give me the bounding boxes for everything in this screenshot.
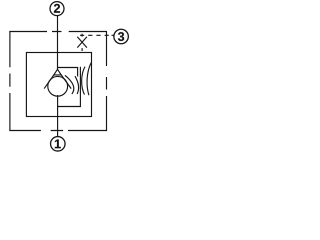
seat diagonal left — [44, 75, 54, 89]
digit 3 — [118, 32, 124, 41]
pilot dashed line to port 3 — [80, 34, 114, 36]
envelope bottom dashed edge — [9, 130, 107, 132]
envelope left dashed edge — [9, 31, 11, 131]
check ball — [48, 76, 68, 96]
spring arc right outer — [87, 63, 91, 96]
seat diagonal right — [61, 75, 71, 89]
spring arc left inner — [65, 75, 74, 94]
pilot vertical dashes at x=82 — [81, 34, 83, 51]
middle box (piston body) — [26, 53, 91, 117]
envelope top dashed edge — [9, 31, 107, 33]
cup A bracket (top + right edge around ball) — [58, 68, 78, 77]
digit 2 — [54, 4, 60, 13]
wire port 1 line — [57, 95, 59, 137]
port circle 1 — [51, 137, 66, 152]
digit 1 — [55, 140, 61, 149]
spring arc right inner — [82, 67, 85, 95]
check seat triangle — [54, 69, 61, 75]
wire port 2 line — [57, 16, 59, 70]
envelope right dashed edge — [106, 32, 108, 132]
spring arc left outer — [75, 76, 79, 94]
port circle 3 — [114, 29, 129, 44]
blocked-port X symbol — [77, 37, 87, 48]
port circle 2 — [50, 2, 64, 16]
piston stem (vertical through spring, down to port line) — [58, 67, 81, 107]
